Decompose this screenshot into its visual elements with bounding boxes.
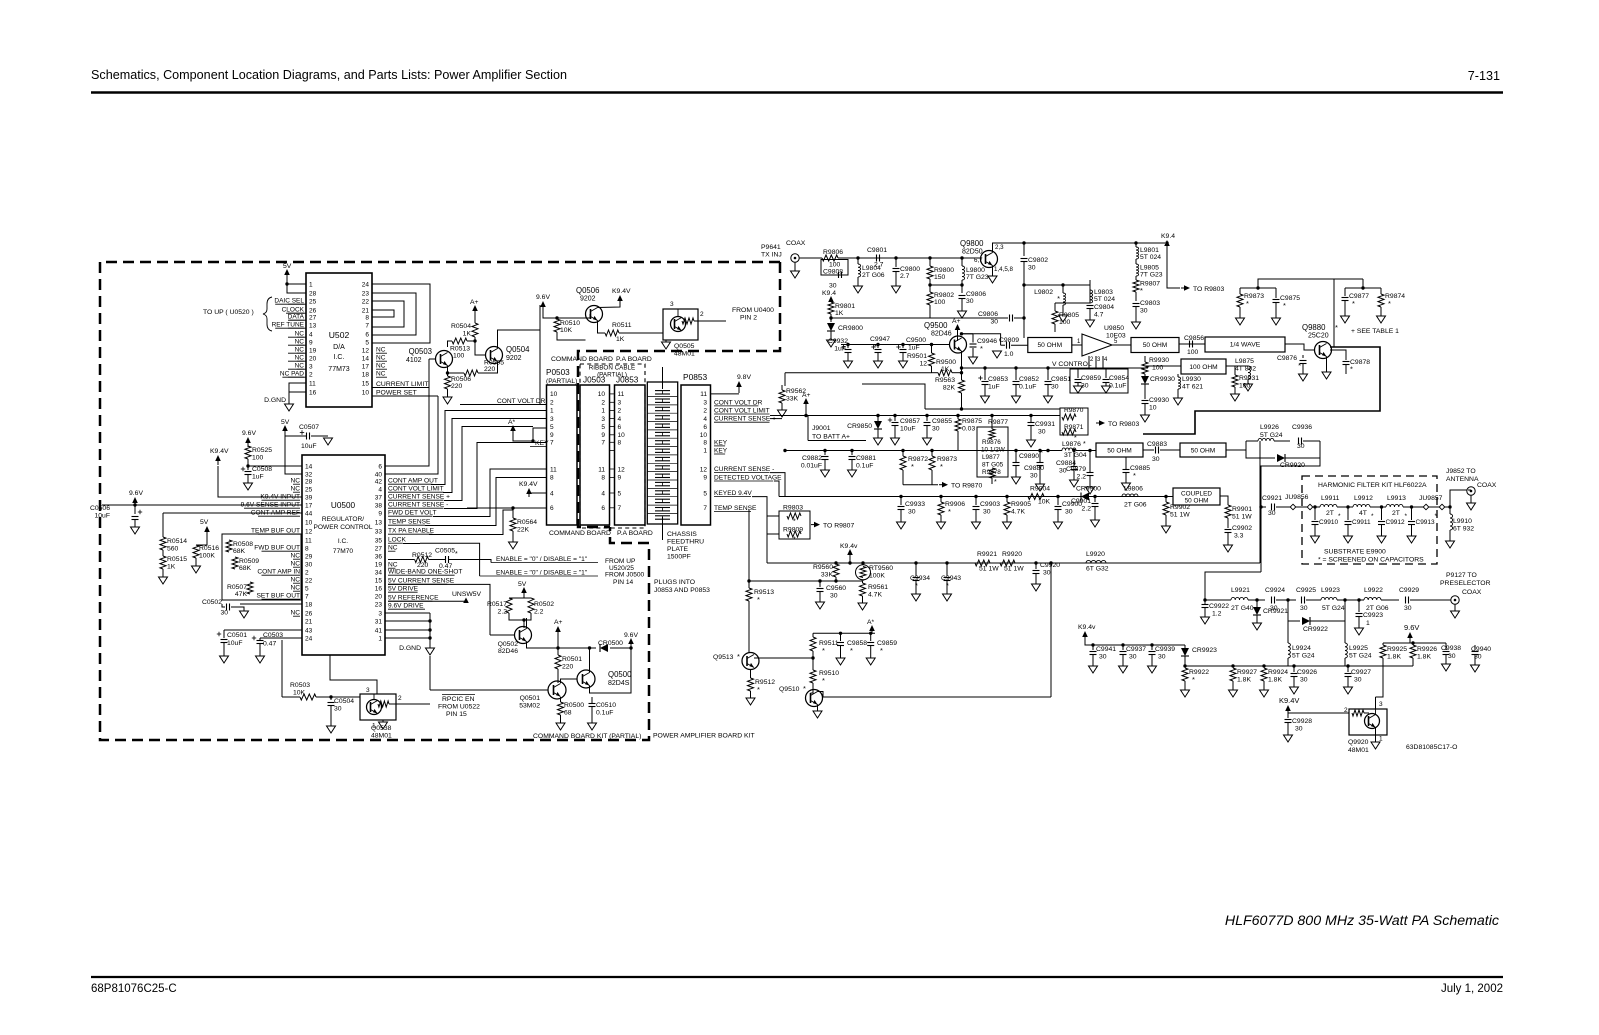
svg-text:2T G40: 2T G40 <box>1231 605 1254 612</box>
svg-text:LOCK: LOCK <box>388 537 407 544</box>
svg-text:*: * <box>455 551 458 558</box>
resistor R9801 <box>830 301 832 302</box>
connector P0503 box <box>547 385 578 525</box>
svg-text:3T G04: 3T G04 <box>1064 452 1087 459</box>
svg-text:C9876: C9876 <box>1277 355 1297 362</box>
caps above Q9880 left pair <box>1240 287 1276 289</box>
svg-text:C0503: C0503 <box>263 632 283 639</box>
capacitor C9876 <box>1302 355 1304 358</box>
svg-text:FROM UP: FROM UP <box>605 558 636 565</box>
svg-text:*: * <box>1140 286 1143 295</box>
svg-text:U502: U502 <box>329 330 350 340</box>
transistor Q0504 <box>486 347 503 364</box>
resistor network R9876 boxed <box>977 427 1008 477</box>
wire cont volt feedback long <box>785 372 932 374</box>
coax J9852 <box>1467 487 1475 495</box>
svg-text:40: 40 <box>375 472 383 479</box>
svg-text:C9560: C9560 <box>826 585 846 592</box>
U502 right nested loop wires <box>372 284 430 343</box>
capacitor C0508 <box>241 468 245 470</box>
svg-text:I.C.: I.C. <box>334 354 345 361</box>
ground Q9510 <box>817 705 819 712</box>
svg-text:41: 41 <box>375 628 383 635</box>
svg-text:82K: 82K <box>943 385 956 392</box>
filter input row <box>1261 506 1266 508</box>
svg-text:30: 30 <box>1297 443 1305 450</box>
resistor box R9803 R9809 <box>779 511 810 539</box>
svg-text:15: 15 <box>375 578 383 585</box>
capacitor C9926 <box>1292 664 1295 667</box>
svg-text:5: 5 <box>703 490 707 497</box>
svg-text:220: 220 <box>451 383 463 390</box>
svg-text:20: 20 <box>375 594 383 601</box>
svg-text:R9805: R9805 <box>1059 312 1079 319</box>
svg-text:0.47: 0.47 <box>439 563 452 570</box>
svg-text:R9877: R9877 <box>988 419 1008 426</box>
svg-text:5T 024: 5T 024 <box>1140 254 1161 261</box>
svg-text:Q9920: Q9920 <box>1348 739 1369 746</box>
svg-text:R9501: R9501 <box>907 353 927 360</box>
svg-text:*: * <box>911 462 914 471</box>
wire R9562 top tie <box>784 373 786 386</box>
50 OHM box 2 <box>1131 338 1179 353</box>
svg-text:48M01: 48M01 <box>674 351 695 358</box>
svg-text:4.7K: 4.7K <box>868 592 882 599</box>
inductor L9800 <box>930 257 962 259</box>
arrow TO R9807 <box>814 522 820 528</box>
svg-text:30: 30 <box>1051 384 1059 391</box>
svg-text:C9808: C9808 <box>823 269 843 276</box>
connector P0853 box <box>681 385 711 525</box>
svg-text:R9562: R9562 <box>786 388 806 395</box>
svg-text:9.6V DRIVE: 9.6V DRIVE <box>388 603 424 610</box>
svg-text:NC: NC <box>376 371 386 378</box>
1/4 WAVE box <box>1205 337 1285 352</box>
svg-text:R9927: R9927 <box>1237 669 1257 676</box>
svg-text:8T G05: 8T G05 <box>982 462 1004 469</box>
wire RF input rail <box>799 257 822 259</box>
svg-text:30: 30 <box>1030 473 1038 480</box>
svg-text:4T 621: 4T 621 <box>1182 384 1203 391</box>
svg-text:NC: NC <box>290 585 300 592</box>
svg-text:R9807: R9807 <box>1140 281 1160 288</box>
svg-text:4: 4 <box>601 490 605 497</box>
svg-text:C9911: C9911 <box>1352 519 1371 526</box>
wire Q0502 base feed <box>490 634 515 636</box>
svg-text:COMMAND BOARD: COMMAND BOARD <box>549 530 611 537</box>
svg-text:Q0501: Q0501 <box>520 695 541 702</box>
svg-text:L9803: L9803 <box>1094 289 1113 296</box>
resistor R0516 <box>193 545 199 558</box>
transistor Q0538 boxed <box>360 694 396 720</box>
J0853 tie stubs <box>610 393 615 395</box>
svg-text:REF TUNE: REF TUNE <box>272 322 305 329</box>
ground Q0505 <box>665 340 667 342</box>
svg-text:6,7: 6,7 <box>974 257 983 264</box>
wire CONT AMP OUT horizontal <box>431 481 445 485</box>
capacitor C9937 <box>1121 643 1124 646</box>
svg-text:R9924: R9924 <box>1268 669 1288 676</box>
svg-text:6: 6 <box>618 424 622 431</box>
ribbon cable dashed box <box>580 364 645 528</box>
svg-text:JU9856: JU9856 <box>1285 494 1309 501</box>
capacitor C0504 <box>330 697 332 700</box>
caps C9890 C9880 <box>1014 449 1017 452</box>
svg-text:TX INJ: TX INJ <box>761 252 782 259</box>
svg-text:7: 7 <box>550 440 554 447</box>
svg-text:3: 3 <box>703 400 707 407</box>
svg-text:CONT VOLT LIMIT: CONT VOLT LIMIT <box>714 407 770 414</box>
svg-text:30: 30 <box>334 706 342 713</box>
svg-text:1K: 1K <box>463 331 472 338</box>
svg-text:22K: 22K <box>517 527 530 534</box>
transistor Q0506 <box>586 306 603 323</box>
svg-text:L9877: L9877 <box>982 454 1000 461</box>
svg-text:R0513: R0513 <box>450 346 470 353</box>
svg-text:L9912: L9912 <box>1354 495 1373 502</box>
capacitor C9939 <box>1150 643 1153 646</box>
svg-text:R9560: R9560 <box>813 564 833 571</box>
svg-text:5V DRIVE: 5V DRIVE <box>388 586 419 593</box>
svg-text:L9800: L9800 <box>966 267 985 274</box>
svg-text:*: * <box>822 676 825 685</box>
boxed caps C9859 C9854 <box>1070 369 1128 393</box>
svg-text:2T: 2T <box>1326 510 1334 517</box>
svg-text:C9925: C9925 <box>1296 587 1316 594</box>
wire U502 pin1 <box>287 283 306 285</box>
command board kit dashed boundary <box>100 262 780 740</box>
svg-text:6: 6 <box>550 505 554 512</box>
svg-text:2: 2 <box>398 695 402 702</box>
svg-text:37: 37 <box>375 495 383 502</box>
svg-text:82D46: 82D46 <box>498 648 518 655</box>
capacitor C9946 <box>962 333 974 335</box>
svg-text:0.47: 0.47 <box>263 641 276 648</box>
svg-text:K9.4: K9.4 <box>822 290 836 297</box>
svg-text:12: 12 <box>305 529 313 536</box>
svg-text:5: 5 <box>365 340 369 347</box>
svg-text:10K: 10K <box>560 327 573 334</box>
svg-text:34: 34 <box>375 570 383 577</box>
svg-text:30: 30 <box>1295 726 1303 733</box>
svg-text:11: 11 <box>618 391 625 398</box>
svg-text:1: 1 <box>550 408 554 415</box>
svg-text:CR9930: CR9930 <box>1150 376 1175 383</box>
svg-text:CR9800: CR9800 <box>838 325 863 332</box>
svg-text:1.8K: 1.8K <box>1268 677 1282 684</box>
svg-text:1: 1 <box>1379 736 1383 743</box>
capacitor C9943 <box>945 561 948 564</box>
svg-text:30: 30 <box>1152 456 1160 463</box>
capacitor C0501 <box>224 629 302 631</box>
svg-text:C9902: C9902 <box>1232 525 1252 532</box>
svg-text:4T 802: 4T 802 <box>1235 366 1256 373</box>
svg-text:17: 17 <box>362 364 370 371</box>
svg-text:Q0503: Q0503 <box>409 347 432 356</box>
svg-text:C9806: C9806 <box>966 291 986 298</box>
svg-text:R0516: R0516 <box>199 545 219 552</box>
resistor R0505 <box>464 370 478 376</box>
svg-text:9.6V: 9.6V <box>536 294 550 301</box>
resistor R9513 <box>746 588 752 601</box>
svg-text:*: * <box>1083 441 1086 448</box>
svg-text:L9804: L9804 <box>862 265 881 272</box>
svg-text:7T G23: 7T G23 <box>1140 272 1163 279</box>
svg-text:Q0502: Q0502 <box>498 641 519 648</box>
svg-text:L9921: L9921 <box>1231 587 1250 594</box>
svg-text:CURRENT SENSE -: CURRENT SENSE - <box>714 466 774 473</box>
svg-text:CR9922: CR9922 <box>1303 626 1328 633</box>
svg-text:5T G24: 5T G24 <box>1292 653 1315 660</box>
wire LOCK row <box>403 543 420 545</box>
svg-text:CR9923: CR9923 <box>1192 647 1217 654</box>
wire Q9800 collector rail <box>993 243 1166 253</box>
wire 50ohm2 to C9856 <box>1179 343 1205 345</box>
svg-text:R0517: R0517 <box>487 601 507 608</box>
svg-text:C0508: C0508 <box>252 466 272 473</box>
wire Q9500 collector to C9809 <box>962 334 1001 345</box>
svg-text:July 1, 2002: July 1, 2002 <box>1441 983 1503 995</box>
wire CURRENT SENSE + long row <box>770 418 782 420</box>
svg-text:C0505: C0505 <box>435 548 455 555</box>
svg-text:DATA: DATA <box>288 314 305 321</box>
svg-text:*: * <box>822 646 825 655</box>
svg-text:R9921: R9921 <box>977 551 997 558</box>
svg-text:0.01uF: 0.01uF <box>801 463 822 470</box>
svg-text:100 OHM: 100 OHM <box>1189 364 1217 371</box>
wire R9801 to R9802 <box>831 317 930 319</box>
resistor R9875 <box>956 414 959 417</box>
svg-text:P.A BOARD: P.A BOARD <box>616 356 652 363</box>
svg-text:33K: 33K <box>786 396 799 403</box>
svg-text:CONT VOLT DR: CONT VOLT DR <box>497 398 546 405</box>
svg-text:NC: NC <box>290 610 300 617</box>
svg-text:CR0500: CR0500 <box>598 640 623 647</box>
svg-text:1,4,5,8: 1,4,5,8 <box>994 266 1013 273</box>
svg-text:NC: NC <box>290 577 300 584</box>
capacitor C9923 <box>1357 598 1360 601</box>
svg-text:ENABLE = "0" / DISABLE = "1": ENABLE = "0" / DISABLE = "1" <box>496 570 588 577</box>
svg-text:Q0506: Q0506 <box>576 286 599 295</box>
svg-text:18: 18 <box>362 372 370 379</box>
svg-text:*: * <box>803 684 806 693</box>
svg-text:28: 28 <box>309 291 317 298</box>
svg-text:68K: 68K <box>239 565 252 572</box>
svg-text:6: 6 <box>365 332 369 339</box>
svg-text:COUPLED: COUPLED <box>1181 491 1212 498</box>
svg-text:27: 27 <box>309 315 317 322</box>
svg-text:2T: 2T <box>1392 510 1400 517</box>
capacitor C9855 <box>925 414 928 417</box>
svg-text:*: * <box>874 342 877 351</box>
svg-text:9202: 9202 <box>506 355 522 362</box>
svg-text:220: 220 <box>417 562 429 569</box>
svg-text:DAIC SEL: DAIC SEL <box>274 298 304 305</box>
svg-text:K9.4V: K9.4V <box>612 288 631 295</box>
svg-text:ANTENNA: ANTENNA <box>1446 476 1479 483</box>
50 OHM box 1 <box>1028 338 1072 353</box>
resistor R9805 <box>1052 311 1058 324</box>
svg-text:V CONTROL: V CONTROL <box>1052 361 1092 368</box>
svg-text:100K: 100K <box>869 573 885 580</box>
svg-text:29: 29 <box>305 554 313 561</box>
capacitor C9806a <box>960 283 963 286</box>
svg-text:Q0500: Q0500 <box>608 670 632 679</box>
svg-text:L9875: L9875 <box>1235 358 1254 365</box>
svg-text:C9921: C9921 <box>1262 495 1282 502</box>
svg-text:1uF: 1uF <box>252 474 264 481</box>
wire cont volt dr link <box>711 405 714 407</box>
svg-text:1uF: 1uF <box>908 345 920 352</box>
svg-text:K9.4: K9.4 <box>1161 233 1175 240</box>
svg-text:R9871: R9871 <box>1064 424 1084 431</box>
wire pin18 row <box>240 603 302 605</box>
svg-text:C9801: C9801 <box>867 247 887 254</box>
svg-text:RT9560: RT9560 <box>869 565 893 572</box>
svg-text:9202: 9202 <box>580 296 596 303</box>
svg-text:2.2: 2.2 <box>1077 474 1087 481</box>
capacitor C9803 <box>1135 292 1137 301</box>
svg-text:L9925: L9925 <box>1349 645 1368 652</box>
svg-text:1K: 1K <box>167 564 176 571</box>
svg-text:NC: NC <box>376 347 386 354</box>
svg-text:7: 7 <box>601 440 605 447</box>
svg-text:P0853: P0853 <box>683 372 708 382</box>
wire Q0500/Q0501 emitters <box>560 697 562 702</box>
svg-text:30: 30 <box>908 509 916 516</box>
svg-text:3: 3 <box>601 416 605 423</box>
svg-text:1.8K: 1.8K <box>1237 677 1251 684</box>
svg-text:3: 3 <box>550 416 554 423</box>
svg-text:C9933: C9933 <box>905 501 925 508</box>
svg-text:23: 23 <box>375 602 383 609</box>
svg-text:KEYED 9.4V: KEYED 9.4V <box>714 490 752 497</box>
svg-text:30: 30 <box>829 283 837 290</box>
svg-text:PIN 14: PIN 14 <box>613 579 633 586</box>
wire Q9880 collector out <box>1143 347 1380 434</box>
svg-text:48M01: 48M01 <box>1348 747 1369 754</box>
diode CR9930 <box>1141 376 1149 384</box>
wire Q9510 collector long <box>818 692 1052 698</box>
svg-text:1K: 1K <box>835 310 844 317</box>
capacitor C0510 <box>561 701 593 703</box>
svg-text:77M73: 77M73 <box>328 366 350 373</box>
svg-text:R9876: R9876 <box>982 439 1001 446</box>
svg-text:2.2: 2.2 <box>498 609 508 616</box>
svg-text:C9800: C9800 <box>900 266 920 273</box>
svg-text:L9876: L9876 <box>1062 441 1081 448</box>
svg-text:COMMAND BOARD: COMMAND BOARD <box>551 356 613 363</box>
svg-text:U9850: U9850 <box>1104 325 1124 332</box>
svg-text:*: * <box>850 646 853 655</box>
V CONTROL wires <box>1088 356 1090 368</box>
svg-text:9: 9 <box>309 340 313 347</box>
svg-text:KEY: KEY <box>714 447 728 454</box>
wire CURRENT LIMIT riser to Q0503 base <box>385 388 429 467</box>
svg-text:30: 30 <box>305 562 313 569</box>
capacitor C9903 <box>974 495 977 498</box>
svg-text:8: 8 <box>365 315 369 322</box>
rail R9511 row top <box>813 632 875 634</box>
wire FWD DET VOLT row <box>433 469 547 517</box>
svg-text:C9928: C9928 <box>1292 718 1312 725</box>
svg-text:C9924: C9924 <box>1265 587 1285 594</box>
svg-text:2: 2 <box>550 400 554 407</box>
buffer box around FWD/SET BUF OUT <box>222 534 301 600</box>
svg-text:C9912: C9912 <box>1386 519 1406 526</box>
svg-text:82D4S: 82D4S <box>608 680 630 687</box>
svg-text:R0501: R0501 <box>562 656 582 663</box>
svg-text:R9931: R9931 <box>1239 375 1259 382</box>
svg-text:Q9800: Q9800 <box>960 239 984 248</box>
svg-text:38: 38 <box>375 503 383 510</box>
svg-text:9.8V: 9.8V <box>737 374 751 381</box>
svg-text:2.7: 2.7 <box>900 273 910 280</box>
svg-text:TO R9807: TO R9807 <box>823 523 854 530</box>
svg-text:R9870: R9870 <box>1064 407 1084 414</box>
transistor Q0505 boxed <box>663 309 698 340</box>
svg-text:C9881: C9881 <box>856 455 876 462</box>
svg-text:2: 2 <box>618 408 622 415</box>
svg-text:22: 22 <box>362 299 370 306</box>
svg-text:Q0504: Q0504 <box>506 345 530 354</box>
svg-text:CONT AMP OUT: CONT AMP OUT <box>388 478 438 485</box>
svg-text:68P81076C25-C: 68P81076C25-C <box>91 983 177 995</box>
arrow TO R9870 <box>942 482 948 488</box>
svg-text:1/4 WAVE: 1/4 WAVE <box>1230 342 1261 349</box>
svg-text:17: 17 <box>305 503 313 510</box>
svg-text:*: * <box>880 646 883 655</box>
diode CR9800 <box>827 323 835 331</box>
svg-text:C0507: C0507 <box>299 424 319 431</box>
svg-text:30: 30 <box>966 298 974 305</box>
svg-text:*: * <box>737 652 740 661</box>
svg-text:100: 100 <box>1187 349 1199 356</box>
svg-text:1.8K: 1.8K <box>1417 654 1431 661</box>
svg-text:D/A: D/A <box>333 344 345 351</box>
header rule <box>91 91 1503 94</box>
svg-text:FROM U0522: FROM U0522 <box>438 704 480 711</box>
svg-text:R0503: R0503 <box>290 682 310 689</box>
resistor R0515 <box>160 556 166 569</box>
ground Q0503 emitter <box>447 389 449 397</box>
svg-text:ENABLE = "0" / DISABLE = "1": ENABLE = "0" / DISABLE = "1" <box>496 556 588 563</box>
svg-text:12: 12 <box>919 361 927 368</box>
svg-text:9.6V: 9.6V <box>242 430 256 437</box>
svg-text:PLATE: PLATE <box>667 546 688 553</box>
svg-text:C9913: C9913 <box>1416 519 1436 526</box>
svg-text:C9804: C9804 <box>1094 304 1114 311</box>
capacitor C9881 <box>850 449 853 452</box>
inductor L9801 <box>1134 241 1137 244</box>
svg-text:Q9513: Q9513 <box>713 654 734 661</box>
wire CONT VOLT LIMIT row <box>443 419 547 493</box>
rail RT9560 row <box>749 580 863 582</box>
svg-text:D.GND: D.GND <box>264 397 286 404</box>
thermistor RT9560 <box>856 565 871 580</box>
50 OHM box 4 <box>1180 443 1226 457</box>
svg-text:COAX: COAX <box>1477 482 1497 489</box>
svg-text:5T G24: 5T G24 <box>1260 432 1283 439</box>
svg-text:18: 18 <box>305 602 313 609</box>
svg-text:*: * <box>948 507 951 516</box>
svg-text:10uF: 10uF <box>900 426 916 433</box>
capacitor C9900 <box>1056 495 1059 498</box>
svg-text:*: * <box>1298 361 1301 370</box>
svg-text:1.0: 1.0 <box>1004 351 1014 358</box>
svg-text:C9927: C9927 <box>1351 669 1371 676</box>
svg-text:0.1uF: 0.1uF <box>596 710 613 717</box>
